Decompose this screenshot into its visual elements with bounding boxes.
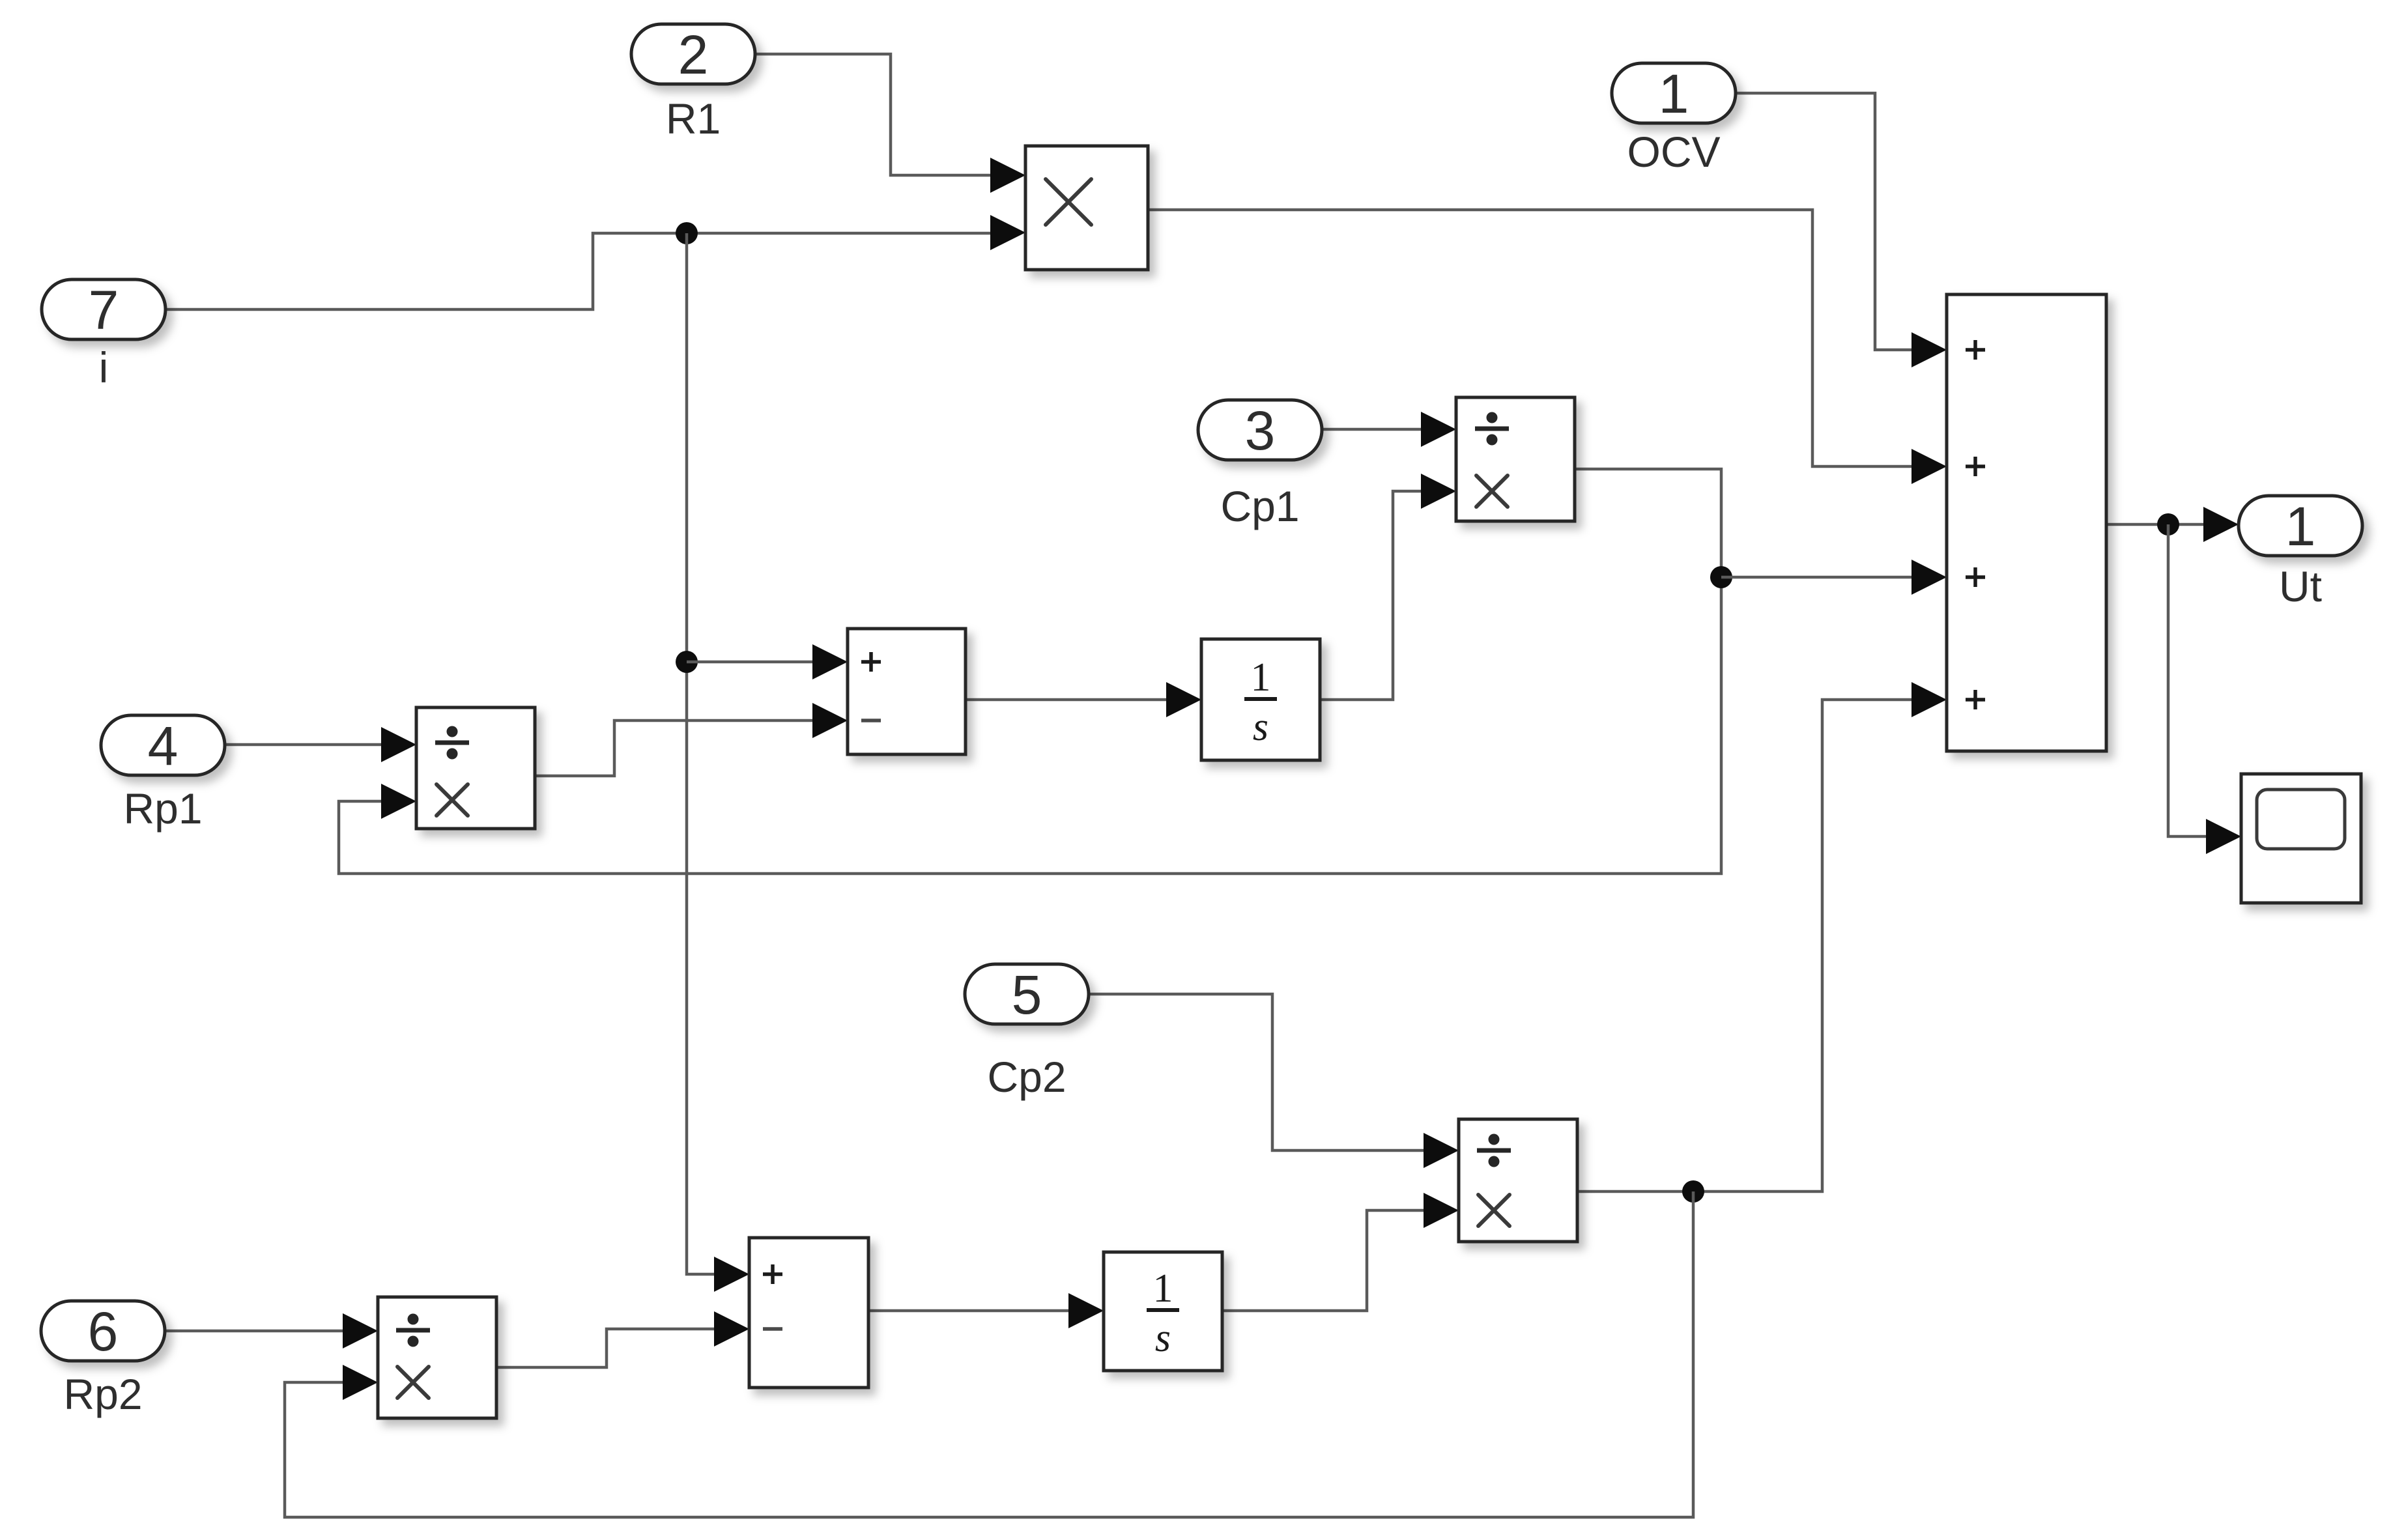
wire Cp1 to Divide2 divide input <box>1322 428 1451 431</box>
inport 4 (Rp1) <box>101 715 225 775</box>
inport 5 (Cp2) <box>965 964 1089 1024</box>
wire OCV to Sum input 1 <box>1736 93 1941 350</box>
inport 3 (Cp1) <box>1198 400 1322 460</box>
divide block Divide3 <box>378 1297 496 1418</box>
svg-text:Rp1: Rp1 <box>123 784 202 833</box>
wire Divide3 output to Sum2 minus input <box>496 1329 744 1367</box>
svg-text:Ut: Ut <box>2279 562 2322 610</box>
wire Sum output to Ut outport <box>2106 523 2233 526</box>
svg-text:OCV: OCV <box>1627 128 1720 176</box>
wire Up2 feedback to Divide3 multiply input <box>285 1191 1693 1517</box>
node i-line junction <box>676 222 698 244</box>
divide block Divide4 <box>1459 1119 1577 1242</box>
node Sum output junction <box>2157 513 2179 535</box>
inport 6 (Rp2) <box>41 1301 165 1361</box>
svg-text:s: s <box>1253 705 1268 749</box>
node Divide2 output junction <box>1710 566 1732 588</box>
svg-text:R1: R1 <box>666 94 721 143</box>
svg-text:1: 1 <box>2285 496 2316 557</box>
svg-text:5: 5 <box>1012 964 1042 1025</box>
wire Divide2 output down to feedback <box>339 469 1721 874</box>
svg-text:Rp2: Rp2 <box>63 1370 142 1418</box>
wire R1 to Product1 input 1 <box>755 54 1020 175</box>
node Divide4 output junction <box>1682 1180 1704 1203</box>
product block Product1 <box>1025 146 1148 270</box>
wire Divide1 output to Sum1 minus input <box>535 720 842 776</box>
wire Up1 to Sum input 3 <box>1721 576 1941 579</box>
svg-text:Cp2: Cp2 <box>987 1053 1066 1101</box>
wire i to Product1 input 2 <box>165 233 1020 309</box>
inport 2 (R1) <box>631 24 755 84</box>
sum block Sum1 <box>848 629 966 754</box>
divide block Divide1 <box>416 707 535 829</box>
wire Product1 output to Sum input 2 <box>1148 210 1941 466</box>
wire Rp1 to Divide1 divide input <box>225 743 411 747</box>
outport 1 (Ut) <box>2239 496 2362 556</box>
sum block Add (4 plus inputs) <box>1947 294 2106 751</box>
svg-text:7: 7 <box>89 279 119 341</box>
wire i-line to Sum1 plus input <box>687 661 842 664</box>
svg-text:4: 4 <box>148 715 179 777</box>
svg-text:s: s <box>1155 1316 1171 1360</box>
svg-text:1: 1 <box>1251 655 1271 700</box>
svg-text:3: 3 <box>1245 400 1276 461</box>
wire Sum2 output to Integrator2 <box>868 1309 1098 1313</box>
svg-text:i: i <box>99 343 109 392</box>
svg-text:2: 2 <box>678 24 709 85</box>
inport 7 (i) <box>42 279 165 339</box>
svg-text:1: 1 <box>1659 63 1689 124</box>
wire Cp2 to Divide4 divide input <box>1089 994 1453 1150</box>
svg-text:1: 1 <box>1153 1266 1173 1311</box>
wire Sum output to Scope <box>2168 524 2236 836</box>
integrator block Integrator1 (1/s) <box>1201 639 1320 760</box>
node i-line junction 2 <box>676 651 698 673</box>
integrator block Integrator2 (1/s) <box>1104 1252 1222 1371</box>
divide block Divide2 <box>1456 397 1575 521</box>
wire Integrator2 output to Divide4 multiply input <box>1222 1210 1453 1311</box>
svg-text:Cp1: Cp1 <box>1220 482 1299 530</box>
scope block <box>2241 774 2361 903</box>
sum block Sum2 <box>749 1238 868 1388</box>
wire Divide4 output to Sum input 4 <box>1577 700 1941 1191</box>
inport 1 (OCV) <box>1612 63 1736 123</box>
wire Sum1 output to Integrator1 <box>966 698 1196 702</box>
wire Rp2 to Divide3 divide input <box>165 1330 373 1333</box>
wire i-line down to Sum2 plus input <box>687 233 744 1274</box>
wire Integrator1 output to Divide2 multiply input <box>1320 491 1451 700</box>
svg-text:6: 6 <box>88 1301 119 1362</box>
